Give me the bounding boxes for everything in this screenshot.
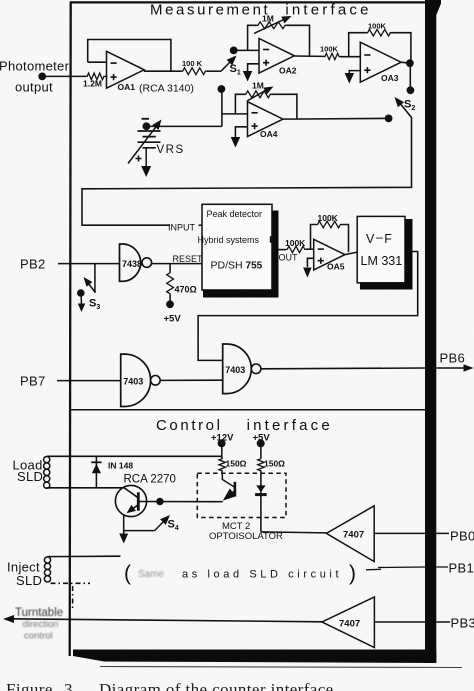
ground OA4 plus bbox=[231, 137, 241, 148]
node base wire dot bbox=[156, 498, 163, 505]
ground VRS arrow bbox=[141, 166, 151, 177]
transistor emitter bbox=[127, 505, 139, 514]
label S4 bbox=[168, 518, 179, 532]
wire +5V down bbox=[260, 443, 262, 458]
frame right thick bar bbox=[425, 0, 441, 663]
resistor 1.2M bbox=[83, 73, 105, 88]
label PB3 bbox=[451, 615, 474, 630]
label +12V bbox=[211, 433, 234, 444]
buffer 7407 upper bbox=[326, 506, 374, 562]
wire inject SLD top bbox=[49, 555, 121, 557]
label PB7 bbox=[20, 374, 45, 389]
node +12V bbox=[218, 439, 226, 447]
label Load SLD bbox=[13, 457, 44, 484]
resistor 100K after OA1 bbox=[181, 59, 207, 75]
node S3 contact bbox=[77, 289, 85, 297]
wire S1 to OA2 minus bbox=[234, 49, 259, 51]
node +5V dot bbox=[166, 300, 174, 308]
label Peak detector bbox=[207, 209, 263, 219]
switch S4 arm bbox=[155, 515, 170, 531]
inductor inject SLD bbox=[44, 557, 50, 582]
wire OA1 feedback loop bbox=[88, 40, 171, 72]
wire OA1 output bbox=[144, 70, 181, 72]
node VRS top bbox=[143, 122, 151, 130]
wire emitter down bbox=[124, 515, 155, 535]
wire V-F output loop bbox=[198, 252, 418, 361]
wire 100K to S1 bbox=[207, 70, 221, 72]
wire LED to 7407 bbox=[261, 532, 327, 533]
label PB6 bbox=[440, 351, 465, 366]
label S1 bbox=[230, 63, 241, 77]
resistor 150 ohm right bbox=[258, 458, 285, 472]
transistor base bar bbox=[137, 492, 140, 510]
label OA1 RCA 3140 bbox=[139, 82, 194, 94]
label VRS bbox=[157, 144, 185, 156]
ground OA5 plus bbox=[303, 268, 312, 278]
wire turntable bbox=[3, 615, 322, 623]
resistor 470 ohm bbox=[167, 264, 197, 304]
switch S3 arm bbox=[84, 277, 96, 293]
frame bottom ghost line bbox=[100, 667, 462, 668]
op-amp OA2 bbox=[259, 38, 297, 75]
phototransistor bar bbox=[234, 482, 237, 497]
label RESET bbox=[173, 254, 204, 264]
wire note to PB1 bbox=[366, 567, 448, 570]
label Hybrid systems bbox=[198, 235, 272, 245]
wire OA5 output to V-F bbox=[345, 252, 357, 255]
wire INPUT into box bbox=[199, 224, 203, 226]
wire 150 to LED bbox=[260, 472, 262, 487]
gate 7438 bbox=[120, 244, 152, 281]
note smudge Same bbox=[138, 569, 165, 580]
wire +12V down bbox=[221, 444, 223, 458]
wire OA1 minus input bbox=[88, 61, 107, 63]
wire OA4 feedback loop bbox=[235, 94, 297, 119]
wire OA4 minus input bbox=[222, 113, 248, 115]
wire OA2 feedback loop bbox=[248, 25, 310, 56]
wire phototransistor emitter left bbox=[216, 501, 222, 503]
title Measurement interface bbox=[150, 1, 372, 18]
switch S1 arm bbox=[221, 56, 237, 72]
box V-F shadow bbox=[360, 219, 413, 290]
label VRS minus bbox=[142, 118, 150, 120]
frame top border bbox=[70, 1, 426, 3]
wire 7403 to 7403 bbox=[160, 379, 223, 381]
resistor 100K OA3 feedback bbox=[366, 22, 392, 37]
note as load SLD circuit bbox=[182, 568, 342, 580]
wire OA4 plus to ground bbox=[235, 127, 247, 139]
transistor RCA2270 circle bbox=[115, 485, 146, 516]
wire RESET 7438 to box bbox=[152, 263, 202, 265]
frame left border bbox=[70, 2, 71, 657]
label Turntable bbox=[15, 607, 63, 619]
switch S2 arm bbox=[395, 97, 412, 118]
resistor 100K OA5 feedback bbox=[316, 213, 342, 228]
wire dashed vertical bbox=[72, 586, 74, 611]
wire PB7 to 7403 bbox=[57, 380, 121, 382]
wire R1.2M to OA1 plus bbox=[105, 75, 108, 77]
wire OA2 output bbox=[294, 55, 324, 57]
wire OA3 plus to ground bbox=[349, 71, 360, 75]
label +5V bbox=[164, 314, 182, 325]
ground OA2 plus bbox=[243, 71, 253, 82]
wire load SLD top bbox=[48, 455, 222, 457]
op-amp OA3 bbox=[360, 42, 401, 83]
label OPTOISOLATOR bbox=[209, 531, 283, 542]
label IN 148 bbox=[108, 460, 133, 470]
label INPUT bbox=[168, 223, 196, 233]
buffer 7407 lower bbox=[322, 597, 374, 648]
label PD/SH 755 bbox=[211, 259, 263, 271]
wire S2 common to peak detector input bbox=[82, 118, 412, 226]
resistor 1M OA2 feedback bbox=[254, 14, 292, 34]
label S2 bbox=[404, 99, 415, 113]
wire VRS down bbox=[145, 148, 147, 167]
gate 7403 left bbox=[121, 354, 161, 406]
transistor collector bbox=[124, 488, 138, 498]
label PB2 bbox=[20, 257, 45, 272]
wire 7407 to PB3 bbox=[374, 621, 450, 623]
node OA3 output bbox=[401, 59, 414, 67]
diode IN148 bbox=[91, 456, 101, 488]
op-amp OA1 bbox=[107, 51, 145, 92]
label MCT 2 bbox=[222, 521, 250, 532]
phototransistor emitter bbox=[223, 489, 236, 501]
note open paren bbox=[124, 562, 131, 585]
battery VRS variable arrow bbox=[128, 120, 162, 164]
resistor 150 ohm left bbox=[219, 458, 247, 472]
switch S3 branch bbox=[94, 264, 96, 293]
node S1 upper contact bbox=[230, 47, 238, 55]
label VRS plus bbox=[136, 156, 142, 162]
label LM 331 bbox=[361, 254, 403, 268]
label PB0 bbox=[450, 529, 474, 544]
node OA4 output contact bbox=[385, 115, 393, 123]
wire OA3 feedback loop bbox=[349, 33, 411, 63]
battery VRS plates bbox=[138, 131, 161, 148]
box MCT2 dashed bbox=[197, 473, 286, 517]
wire 100K to OA3 minus bbox=[340, 56, 360, 58]
label V-F bbox=[366, 231, 392, 246]
wire VRS to S1 branch bbox=[146, 125, 222, 127]
label Photometer output bbox=[0, 59, 70, 95]
LED MCT2 bbox=[255, 485, 267, 532]
wire OA3 node down to S2 contact bbox=[409, 63, 411, 87]
caption figure bbox=[6, 680, 334, 691]
inductor load SLD bbox=[44, 456, 50, 488]
switch S3 lower stub bbox=[78, 293, 85, 312]
label OUT bbox=[279, 253, 299, 263]
label control bbox=[24, 631, 53, 642]
label Inject SLD bbox=[7, 559, 42, 588]
wire OA4 output to S2 bbox=[283, 117, 389, 120]
label RCA 2270 bbox=[124, 473, 176, 485]
node +5V control bbox=[257, 439, 265, 447]
wire load SLD bottom bbox=[48, 487, 124, 489]
wire OA2 plus to ground bbox=[248, 64, 259, 73]
wire 150 to phototransistor bbox=[222, 472, 235, 488]
wire PB2 to 7438 bbox=[58, 263, 120, 265]
frame bottom thick bar bbox=[73, 650, 436, 664]
op-amp OA4 bbox=[248, 102, 284, 139]
box peak detector shadow bbox=[203, 211, 279, 298]
title Control interface bbox=[156, 417, 333, 434]
label 100K before OA5 bbox=[285, 238, 306, 248]
label PB1 bbox=[449, 561, 474, 576]
label +5V control bbox=[253, 433, 271, 444]
label direction bbox=[23, 619, 59, 630]
resistor 100K between OA2 OA3 bbox=[320, 45, 340, 60]
resistor 1M OA4 feedback bbox=[244, 80, 274, 101]
section divider line bbox=[70, 409, 425, 411]
gate 7403 right bbox=[223, 344, 261, 394]
box peak detector bbox=[202, 204, 272, 290]
label S3 bbox=[89, 298, 100, 312]
wire PB6 output bbox=[261, 364, 474, 372]
ground OA3 plus bbox=[345, 73, 355, 84]
ground emitter bbox=[119, 534, 128, 544]
node S1 lower contact bbox=[218, 85, 226, 93]
wire base right bbox=[138, 501, 216, 503]
node S2 upper contact bbox=[407, 86, 415, 94]
wire 7407 to PB0 bbox=[374, 532, 449, 534]
wire photometer to R 1.2M bbox=[42, 75, 86, 77]
op-amp OA5 bbox=[314, 239, 345, 271]
wire OA5 feedback loop bbox=[311, 225, 349, 253]
node photometer terminal bbox=[38, 73, 46, 81]
wire OA5 plus to ground bbox=[307, 258, 313, 267]
wire OUT with resistor 100K bbox=[279, 246, 314, 252]
box V-F LM331 bbox=[357, 216, 405, 282]
wire S1 lower contact down bbox=[221, 89, 223, 127]
wire inject SLD bottom dashed bbox=[51, 582, 91, 584]
note close paren bbox=[349, 562, 356, 585]
